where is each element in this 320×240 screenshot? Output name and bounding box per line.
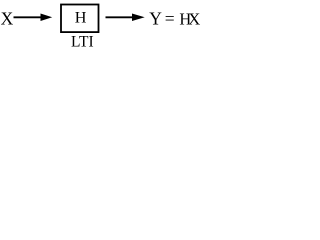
svg-text:H: H bbox=[75, 8, 87, 26]
svg-text:LTI: LTI bbox=[71, 33, 94, 50]
svg-text:X: X bbox=[1, 8, 14, 28]
background bbox=[0, 0, 215, 56]
input signal label X bbox=[1, 8, 14, 28]
wire: input arrow shaft bbox=[14, 16, 43, 18]
wire: output arrow shaft bbox=[106, 16, 134, 18]
block H (LTI system box) bbox=[61, 5, 99, 33]
block label H bbox=[75, 8, 87, 26]
caption LTI under block bbox=[71, 33, 94, 50]
output signal label Y = HX bbox=[149, 8, 200, 28]
arrowhead: input arrow into block bbox=[41, 14, 53, 22]
arrowhead: output arrow bbox=[132, 14, 145, 22]
